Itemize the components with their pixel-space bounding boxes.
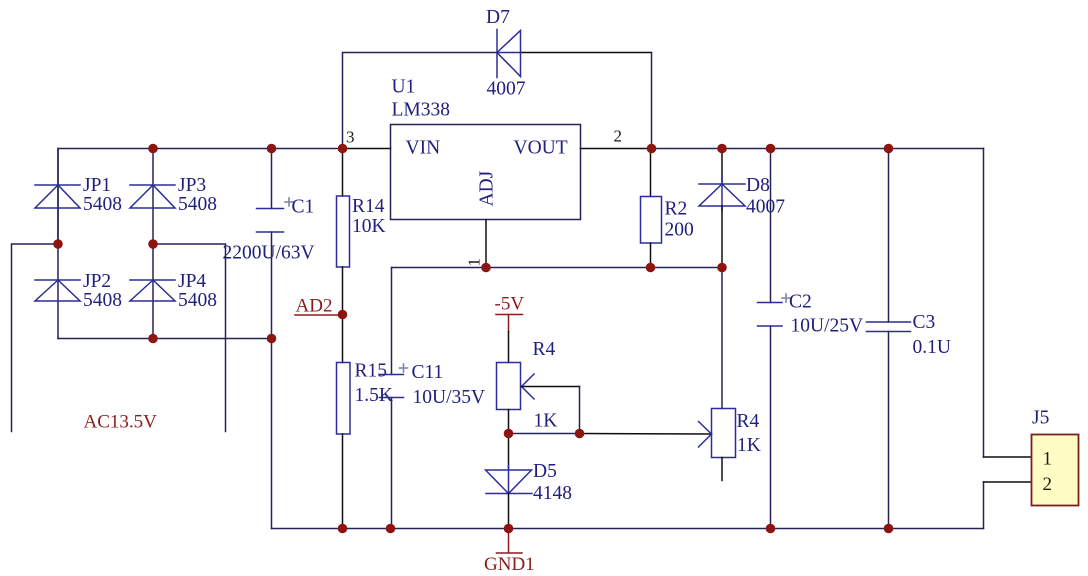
svg-text:D8: D8: [746, 175, 770, 196]
svg-text:1: 1: [465, 258, 484, 267]
svg-text:U1: U1: [392, 77, 416, 98]
resistor R15: [342, 315, 344, 363]
net label GND1: [508, 529, 510, 553]
diode JP3: [130, 185, 175, 208]
svg-text:VIN: VIN: [406, 138, 441, 159]
svg-text:C11: C11: [412, 362, 444, 383]
diode D7: [497, 30, 521, 78]
pin J5 lead 1: [984, 456, 1032, 458]
svg-text:200: 200: [665, 220, 694, 241]
wire right drop: [983, 149, 985, 458]
wire C3 column: [888, 149, 890, 323]
svg-text:2200U/63V: 2200U/63V: [223, 243, 315, 264]
svg-text:C3: C3: [913, 312, 936, 333]
potentiometer R4 (left): [497, 363, 521, 410]
svg-text:D7: D7: [486, 7, 510, 28]
capacitor C11: [380, 375, 404, 398]
svg-text:JP3: JP3: [178, 175, 206, 196]
svg-text:0.1U: 0.1U: [913, 337, 951, 358]
resistor R14: [342, 149, 344, 197]
svg-text:10U/25V: 10U/25V: [791, 316, 864, 337]
svg-text:AC13.5V: AC13.5V: [84, 412, 158, 433]
svg-text:C2: C2: [789, 292, 812, 313]
svg-text:1: 1: [1043, 449, 1053, 470]
svg-text:1K: 1K: [737, 435, 761, 456]
svg-text:1.5K: 1.5K: [355, 385, 393, 406]
svg-text:1K: 1K: [534, 411, 558, 432]
wire C2 column: [770, 149, 772, 303]
pin VOUT lead: [581, 148, 652, 150]
capacitor C3: [867, 322, 911, 332]
svg-text:10K: 10K: [352, 216, 386, 237]
wire bridge column 2: [152, 149, 154, 339]
svg-text:VOUT: VOUT: [514, 138, 568, 159]
capacitor C2: [758, 303, 783, 327]
connector J5: [1032, 435, 1079, 506]
pin J5 lead 2: [984, 481, 1032, 483]
svg-text:-5V: -5V: [495, 294, 525, 315]
svg-text:D5: D5: [533, 461, 557, 482]
wire AC input mid: [153, 244, 226, 432]
wire AC input left: [12, 244, 59, 432]
svg-text:C1: C1: [292, 197, 315, 218]
svg-text:2: 2: [614, 127, 623, 146]
svg-text:4007: 4007: [746, 197, 785, 218]
wire D7 loop right: [651, 53, 653, 149]
svg-text:JP2: JP2: [83, 271, 111, 292]
svg-text:R15: R15: [355, 361, 388, 382]
svg-text:R4: R4: [533, 339, 556, 360]
wire D7 loop left: [343, 53, 498, 149]
svg-text:4148: 4148: [533, 483, 572, 504]
pin VIN lead: [343, 148, 391, 150]
wire ADJ rail: [392, 267, 723, 269]
svg-text:GND1: GND1: [484, 554, 535, 575]
svg-text:5408: 5408: [178, 194, 217, 215]
resistor R2: [650, 149, 652, 197]
pin ADJ lead: [485, 220, 487, 268]
svg-text:R14: R14: [352, 196, 385, 217]
svg-text:AD2: AD2: [296, 296, 333, 317]
svg-text:JP4: JP4: [178, 271, 206, 292]
svg-text:10U/35V: 10U/35V: [413, 387, 486, 408]
wire bridge bottom rail: [58, 338, 272, 340]
capacitor C1: [257, 209, 284, 233]
svg-text:5408: 5408: [83, 194, 122, 215]
wire top rail right: [652, 148, 984, 150]
diode JP1: [35, 185, 80, 208]
wire bridge column 1: [57, 149, 59, 339]
wire wiper R4 left: [522, 386, 580, 388]
svg-text:2: 2: [1043, 474, 1053, 495]
wire C1 column bottom: [271, 232, 273, 529]
svg-text:5408: 5408: [83, 290, 122, 311]
wire C11 column: [391, 268, 393, 375]
svg-text:LM338: LM338: [392, 100, 451, 121]
svg-text:JP1: JP1: [83, 175, 111, 196]
wire C1 column top: [271, 149, 273, 209]
diode D8: [721, 149, 723, 185]
svg-text:5408: 5408: [178, 290, 217, 311]
wire D7 right lead: [521, 52, 652, 54]
svg-text:3: 3: [346, 128, 355, 147]
svg-text:4007: 4007: [487, 79, 526, 100]
wire top rail left: [58, 149, 343, 245]
diode D5: [508, 434, 510, 471]
svg-text:J5: J5: [1032, 408, 1049, 429]
svg-text:R4: R4: [737, 411, 760, 432]
wire -5V stub: [508, 315, 510, 332]
svg-text:ADJ: ADJ: [477, 170, 498, 206]
op-amp U1 box: [391, 125, 581, 220]
diode JP4: [130, 280, 175, 301]
diode JP2: [35, 280, 80, 301]
wire bottom rail: [272, 528, 984, 530]
wire pot rail: [509, 433, 580, 435]
svg-text:R2: R2: [665, 199, 688, 220]
potentiometer R4 (right): [721, 268, 723, 409]
